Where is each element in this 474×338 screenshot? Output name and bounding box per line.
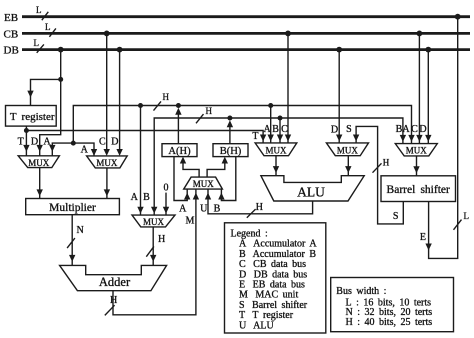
width slash on DB [37,44,44,52]
wire accumulator B bus (line2) [154,118,403,215]
svg-text:D: D [331,124,338,135]
svg-text:MUX: MUX [28,158,50,168]
ALU U [261,176,364,201]
mux MUX7 (barrel shifter input select) [395,144,437,156]
svg-text:H: H [158,234,165,245]
wire MUX6 to ALU [347,156,349,176]
svg-text:ALU: ALU [297,185,325,200]
svg-text:EB: EB [4,12,18,24]
svg-text:A: A [263,124,271,135]
svg-text:C: C [281,124,288,135]
wire B(H) loop to MUX3-B [221,157,235,201]
mux MUX1 (multiplier left) [18,156,59,168]
wire DB tap to MUX2-D [119,50,121,151]
svg-text:MUX: MUX [337,146,359,156]
svg-text:Bus width :: Bus width : [336,286,386,297]
svg-text:H : 40 bits, 25 terts: H : 40 bits, 25 terts [346,317,433,328]
A(H) accumulator register [162,144,197,157]
wire Multiplier to Adder (N) [71,215,73,266]
width slash on U loop [247,209,256,218]
wire accumulator A bus (line1) [73,106,411,144]
width slash on A bus [154,101,162,110]
wire B(H) output up to B bus [229,126,231,144]
svg-text:H: H [256,202,263,213]
svg-text:MUX: MUX [96,158,118,168]
svg-text:MUX: MUX [193,179,215,189]
svg-text:T register: T register [10,111,55,123]
svg-text:L: L [34,38,40,48]
svg-text:MUX: MUX [143,217,165,227]
wire constant 0 to MUX4 [165,193,167,216]
wire DB tap to MUX7-D [427,50,429,144]
svg-text:A: A [402,124,410,135]
mux MUX4 (adder input select) [132,215,175,227]
svg-text:B: B [143,192,150,203]
svg-text:D: D [111,137,118,148]
svg-text:DB: DB [4,45,19,57]
wire DB tap to MUX6-D [338,50,340,143]
svg-text:MUX: MUX [406,146,428,156]
width slash on B bus [196,114,204,123]
svg-text:A(H): A(H) [168,146,191,157]
wire CB tap to MUX5-C [287,33,289,142]
legend text [231,229,318,332]
bus DB [22,48,470,51]
wire CB tap to MUX7-C [418,33,420,143]
wire A(H) loop to MUX3-A [174,157,187,201]
width slash on adder out [105,305,115,315]
svg-text:T: T [18,137,24,148]
svg-text:A: A [179,203,187,214]
wire T register out to MUX1-T [25,126,27,156]
T register U1 [6,106,57,127]
svg-text:L: L [464,211,470,221]
junction dot A row [71,141,76,146]
wire elbow to T register input [31,79,61,105]
svg-text:0: 0 [164,182,169,193]
mux MUX6 (ALU right input select) [326,143,368,156]
svg-text:U: U [200,203,208,214]
svg-text:B: B [214,203,221,214]
wire MUX7 to Barrel shifter [416,156,418,176]
svg-text:S: S [393,211,399,222]
svg-text:N: N [77,225,84,236]
width slash on EB [42,12,49,20]
wire MUX3 to B(H) [207,163,225,178]
wire T line to MUX5-T [26,131,263,143]
svg-text:C: C [411,124,418,135]
svg-text:MUX: MUX [265,146,287,156]
svg-text:CB: CB [4,29,19,41]
wire MUX1 to Multiplier [39,168,41,199]
adder [60,265,167,290]
wire A bus branch to MUX4-A [140,106,142,216]
junction dot T out [24,128,29,133]
width slash N [67,238,75,248]
bus CB [22,32,470,35]
mux MUX2 (multiplier right) [87,156,128,168]
svg-text:U ALU: U ALU [239,320,275,331]
svg-text:Multiplier: Multiplier [49,202,96,214]
svg-text:B: B [272,124,279,135]
legend box [225,223,326,333]
svg-text:A: A [131,192,139,203]
svg-text:A: A [43,137,51,148]
mux MUX3 (accumulator input select, inverted) [184,177,223,189]
mux MUX5 (ALU left input select) [255,143,297,156]
wire ALU out U loop to MUX3-U (H) [208,189,313,214]
svg-text:M: M [186,216,195,227]
svg-text:B(H): B(H) [220,146,242,157]
multiplier unit [26,199,120,215]
svg-text:H: H [163,92,170,102]
svg-text:D: D [31,137,38,148]
bus width text [336,286,432,328]
wire MUX5 to ALU [275,156,277,176]
wire MUX2 to Multiplier [106,168,108,199]
svg-text:C: C [99,137,106,148]
svg-text:L: L [36,5,42,15]
svg-text:L: L [45,22,51,32]
svg-text:A: A [81,145,89,156]
svg-text:E: E [420,232,426,243]
svg-text:S: S [346,124,352,135]
svg-text:H: H [206,106,213,116]
width slash H [146,246,154,256]
wire B bus to MUX5-B [279,118,281,143]
width slash on CB [49,28,56,36]
svg-text:D: D [419,124,426,135]
barrel shifter S [381,176,456,202]
wire MUX3 to A(H) [183,163,199,178]
wire A(H) output up to A bus [177,114,179,144]
wire Adder out M loop to MUX3-M [113,189,196,315]
wire A bus to MUX5-A [270,106,272,143]
junction dot at T register elbow [58,77,63,82]
svg-text:H: H [110,295,117,306]
wire DB tap to T register elbow and MUX1-D [40,50,61,156]
width slash on EB tap [454,220,462,230]
wire A row to MUX1-A and MUX2-A [52,143,94,156]
wire S feedback from Barrel shifter to MUX6-S [356,126,403,223]
svg-text:T: T [252,131,258,142]
bus width box [331,278,454,332]
wire MUX4 to Adder (H) [152,227,154,266]
B(H) accumulator register [213,144,248,157]
wire EB tap / E write path from barrel shifter [429,17,458,259]
wire CB tap to MUX2-C [106,33,108,150]
svg-text:Adder: Adder [99,275,131,289]
svg-text:H: H [383,158,390,168]
svg-text:Barrel shifter: Barrel shifter [387,184,450,196]
bus EB [22,15,470,18]
width slash on S feedback [373,163,382,172]
junction dot DB tap1 [58,47,64,53]
